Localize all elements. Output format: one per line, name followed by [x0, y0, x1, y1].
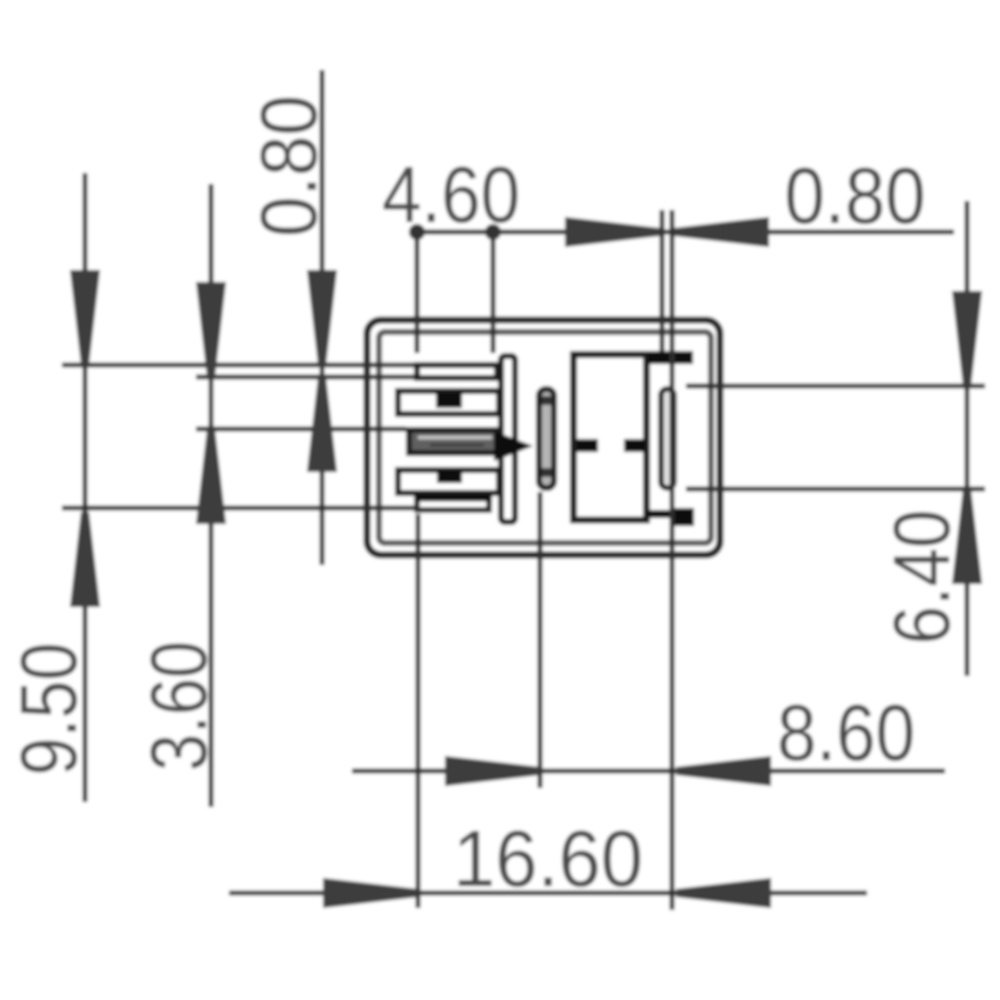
0.80 left up arrow — [307, 377, 337, 472]
dimension line 9.50 vertical x=85 — [83, 173, 88, 802]
extension line y=377 left — [196, 375, 414, 380]
pin row 3 blade (hatched) — [409, 430, 497, 453]
extension line x=540 bottom — [538, 492, 543, 788]
dimension line 8.60 horizontal y=771 — [352, 769, 945, 774]
16.60 right-pointing arrow — [323, 878, 418, 908]
coil cavity big rectangle — [574, 355, 647, 521]
4.60 dot left — [409, 224, 425, 240]
svg-text:6.40: 6.40 — [877, 510, 966, 645]
extension line x=493 top — [491, 232, 496, 353]
svg-text:8.60: 8.60 — [777, 688, 915, 777]
extension line y=386 right — [686, 384, 985, 389]
coil cavity top-right bar — [648, 351, 693, 364]
3.60 up arrow — [196, 429, 226, 524]
svg-text:16.60: 16.60 — [453, 814, 643, 903]
8.60 right-pointing arrow — [445, 756, 540, 786]
component inner body line — [379, 332, 711, 543]
dimension line 4.60 / 0.80 top horizontal y=232 — [417, 230, 954, 235]
svg-text:9.50: 9.50 — [4, 643, 93, 776]
0.80 top left-pointing arrow — [674, 217, 769, 247]
svg-text:3.60: 3.60 — [134, 641, 223, 771]
dimension line 0.80 left vertical x=322 — [320, 70, 325, 565]
9.50 up arrow — [70, 512, 100, 607]
8.60 left-pointing arrow — [676, 756, 771, 786]
coil cavity bottom connector — [648, 510, 674, 518]
extension line x=672 full — [670, 210, 675, 910]
pin row 4 slot — [398, 470, 499, 493]
coil cavity mid dash right — [624, 439, 645, 452]
dimension line 16.60 horizontal y=893 — [229, 891, 867, 896]
0.80 left down arrow — [307, 270, 337, 365]
3.60 down arrow — [196, 282, 226, 377]
0.80 top right-pointing arrow — [565, 217, 660, 247]
extension line y=429 left — [196, 427, 406, 432]
extension line y=508 left — [62, 506, 420, 511]
pin row 2 key blob — [436, 393, 462, 408]
pin row 3 blade tip triangle — [494, 431, 533, 461]
middle vertical pin slot — [539, 389, 554, 488]
pin row 5 slot (bottom horizontal blade) — [417, 498, 489, 510]
svg-text:0.80: 0.80 — [244, 95, 333, 237]
middle slot bottom dash — [542, 468, 552, 477]
16.60 left-pointing arrow — [676, 878, 771, 908]
coil cavity bottom-right bar — [674, 508, 694, 526]
extension line x=662 top — [660, 210, 665, 352]
right vertical pin slot — [661, 389, 674, 488]
pin row 2 slot — [398, 391, 499, 414]
6.40 up arrow — [952, 489, 982, 584]
extension line y=489 right — [686, 487, 985, 492]
comb spine vertical bar — [501, 356, 515, 522]
extension line x=417 top — [415, 232, 420, 353]
4.60 dot right — [485, 224, 501, 240]
middle slot top dash — [542, 396, 552, 405]
svg-text:0.80: 0.80 — [785, 151, 926, 240]
dimension line 6.40 vertical x=967 — [965, 201, 970, 676]
dimension line 3.60 vertical x=211 — [209, 184, 214, 807]
extension line x=418 bottom — [416, 514, 421, 908]
extension line y=365 left — [62, 363, 414, 368]
svg-text:4.60: 4.60 — [382, 150, 520, 239]
6.40 down arrow — [952, 291, 982, 386]
9.50 down arrow — [70, 270, 100, 365]
coil cavity mid dash left — [577, 439, 598, 452]
pin row 4 key blob — [437, 471, 462, 483]
component outer body rounded rect — [367, 320, 720, 555]
pin row 1 slot (top horizontal blade) — [417, 365, 497, 378]
